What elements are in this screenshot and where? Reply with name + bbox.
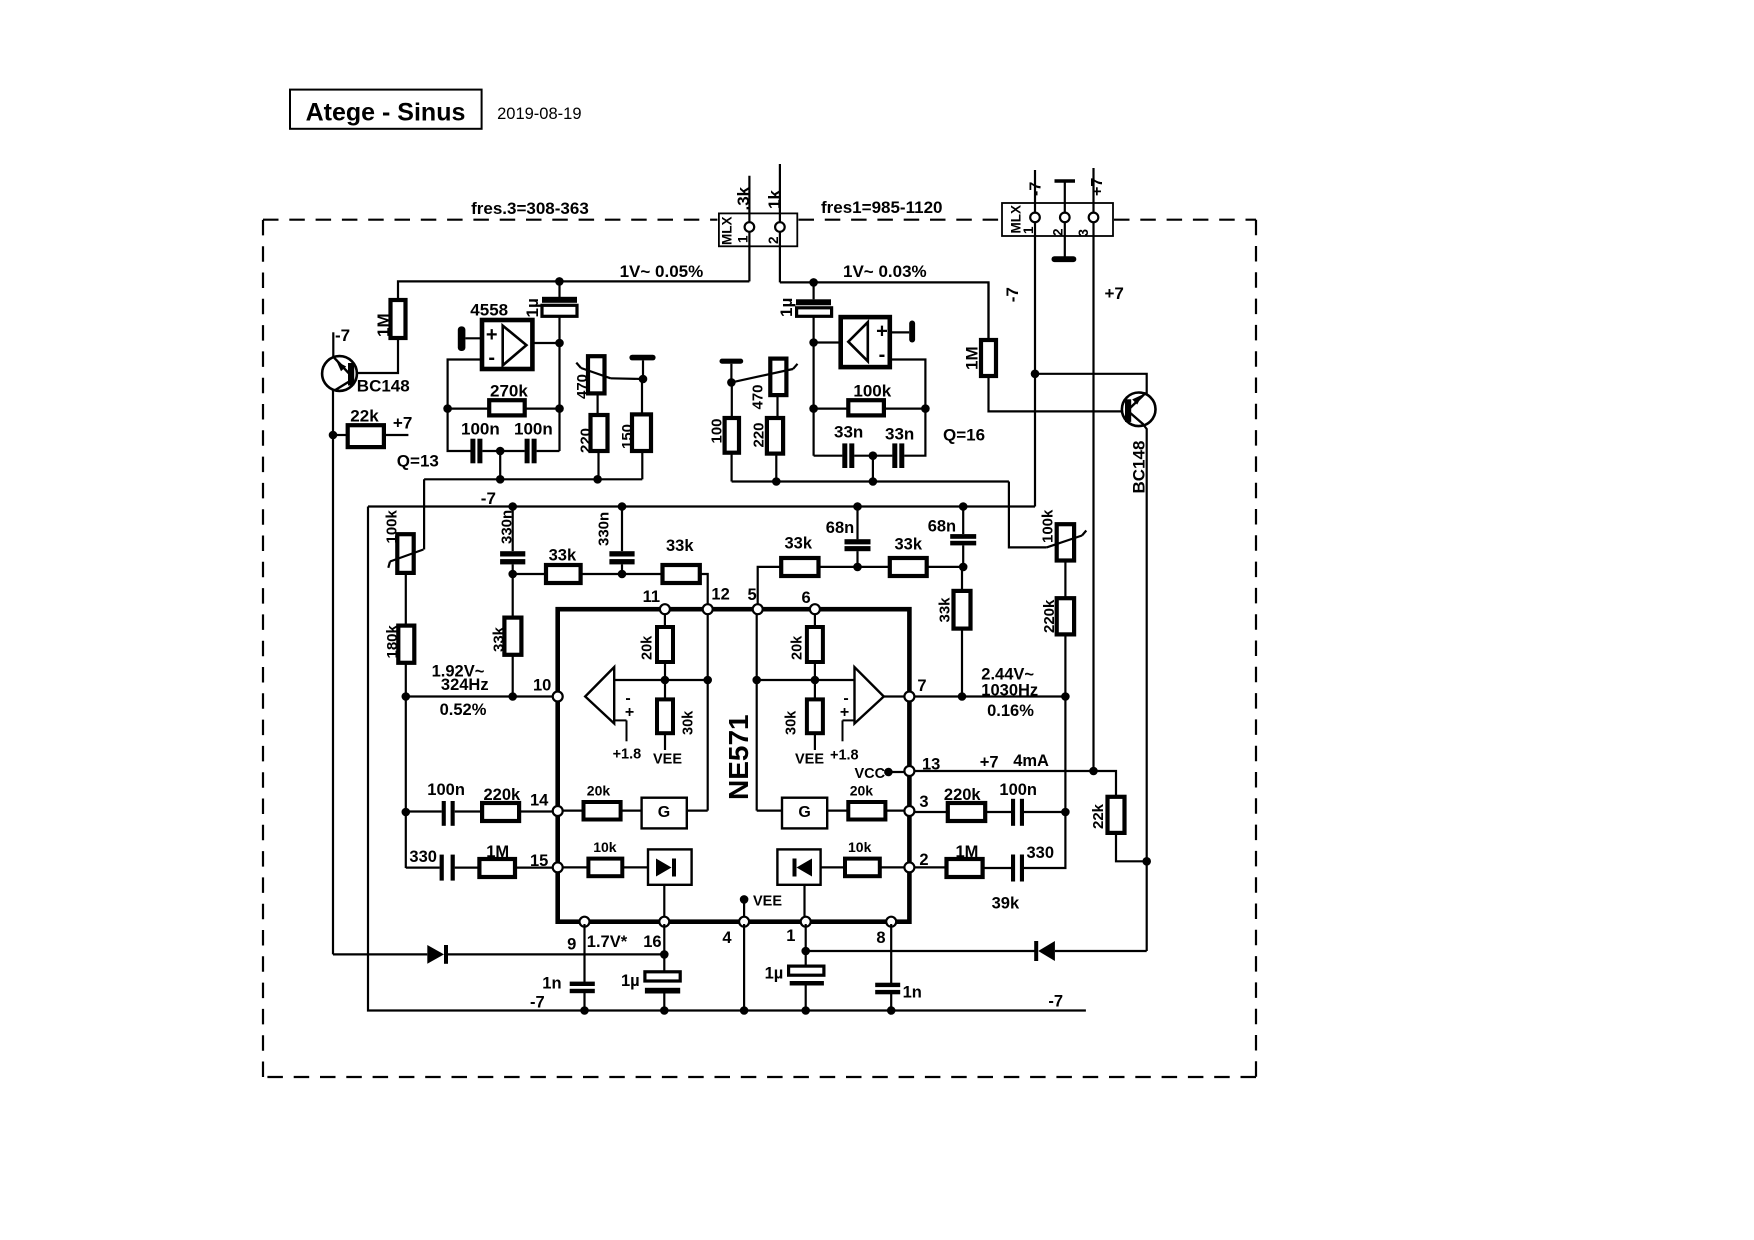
resistor 33k A [546,565,581,583]
wire 220 right bottom [775,454,777,482]
svg-text:220: 220 [751,422,768,447]
node +7 rail end [1089,767,1098,776]
wire diode D2 to collector rail [1055,950,1147,952]
svg-text:VCC: VCC [855,766,886,782]
wire 1V 0.03% net [780,282,989,340]
svg-text:33k: 33k [895,536,923,554]
svg-text:-: - [488,347,495,369]
node 330n B bottom [618,570,627,579]
node 33k pin7 junction [958,692,967,701]
op-amp internal left triangle [585,667,614,723]
wire 470 to 220 right [776,395,778,418]
capacitor 68n A [856,507,858,540]
svg-text:Atege - Sinus: Atege - Sinus [306,99,466,127]
svg-text:16: 16 [643,933,661,951]
capacitor 33n A [842,443,847,468]
ground plate at U1B +input [909,321,915,343]
wire right bus to wiper [1009,482,1047,548]
resistor internal left 10k [588,859,622,877]
svg-text:22k: 22k [1090,803,1107,829]
svg-text:33n: 33n [834,423,863,442]
IC NE571 box [558,609,910,922]
wire 1V 0.05% net [398,281,749,300]
wire internal pin12 vertical [707,611,709,811]
wire 33k A to B [581,573,663,575]
wire 100 bottom [730,453,732,482]
svg-text:30k: 30k [681,710,697,735]
capacitor 100n A [470,439,475,464]
svg-text:Q=16: Q=16 [943,426,985,445]
svg-text:+: + [876,321,888,343]
node 100n pin14 junction [402,808,411,817]
svg-text:VEE: VEE [795,752,824,768]
resistor 1M left [391,300,406,338]
svg-text:100k: 100k [853,382,891,401]
svg-text:470: 470 [750,384,767,409]
wire 33n junction down [872,456,874,482]
wire 33k vertical right leads [961,567,963,591]
node 330n A bottom [508,570,517,579]
wire pin8 down [890,924,892,983]
svg-text:VEE: VEE [653,752,682,768]
wire U1A output [532,342,559,344]
wire 270k left lead [448,408,490,410]
node U1A feedback left [443,404,452,413]
svg-text:270k: 270k [490,382,528,401]
wire pin13 row [915,771,1117,797]
svg-text:68n: 68n [826,519,854,537]
svg-text:1n: 1n [903,984,922,1002]
trimmer 470 right [770,359,786,396]
node 100n bus junction [496,475,505,484]
op-amp U1A box [482,320,532,369]
wire pin4 down [743,924,745,1011]
pin 8 [886,917,896,927]
node between 33n caps [869,451,878,460]
svg-text:330n: 330n [596,512,613,546]
svg-text:330: 330 [409,848,437,866]
svg-text:33k: 33k [491,626,508,652]
svg-text:.3k: .3k [734,186,753,210]
svg-text:NE571: NE571 [723,714,754,800]
node -7/emitter junction [1031,370,1040,379]
wire between 33n caps [854,455,892,457]
capacitor 100n pin3 [1011,799,1015,826]
svg-text:G: G [658,804,670,821]
node 100n pin3 junction [1061,808,1070,817]
svg-text:2019-08-19: 2019-08-19 [497,105,581,123]
wire -7 bus [368,505,1035,507]
svg-text:1k: 1k [765,190,784,209]
resistor 220 left [591,415,608,451]
ground bar above 470 left [629,355,655,361]
svg-text:33k: 33k [666,537,694,555]
diode D1 [427,945,444,964]
svg-text:5: 5 [748,586,757,604]
ground bar above 100 [720,359,744,364]
wire pin1 junction to diode right [806,950,1037,952]
node 68n B bottom [959,563,968,572]
wire 1M to base [354,338,398,373]
svg-text:-7: -7 [530,994,545,1012]
node U1B feedback right [921,404,930,413]
pin 16 [659,917,669,927]
svg-text:+1.8: +1.8 [830,748,859,764]
capacitor 100n pin14 [442,801,446,826]
svg-text:+1.8: +1.8 [613,747,642,763]
svg-text:2: 2 [919,851,928,869]
node 220 right bus junction [772,477,781,486]
node pin16 wire junction [660,950,669,959]
capacitor 68n B [962,507,964,535]
IC NE571 internals right 20k [814,611,816,627]
svg-text:1M: 1M [486,843,509,861]
node VCC terminal [884,768,893,777]
wire U1A output vertical [558,316,560,451]
resistor 33k vertical right [954,591,971,629]
wire diode to 10k right [821,866,845,868]
node 330n A junction [508,502,517,511]
svg-text:1µ: 1µ [765,965,784,983]
svg-text:22k: 22k [350,407,379,426]
svg-text:-7: -7 [335,326,350,345]
wire MLX pin1 vertical [748,176,750,282]
wire left filter bus [424,478,642,480]
resistor 22k [348,425,384,447]
wire trimmer to 220k [1064,561,1066,599]
wire 330 to 1M [455,866,480,868]
capacitor 100n B [525,439,530,464]
node 68n A bottom [853,563,862,572]
svg-text:+7: +7 [393,414,412,433]
ground plate at U1A +input [458,326,466,351]
node pin4 -7 [740,1006,749,1015]
wire 150 bottom [641,451,643,479]
svg-text:+7: +7 [1089,178,1106,196]
wire pin5 to 33k C [758,567,782,604]
wire MLX2 pin2 to ground [1064,222,1066,257]
svg-text:220k: 220k [1041,599,1058,633]
resistor internal left 20k h [584,802,621,820]
wire 220k to 100n [985,811,1011,813]
wire 150 top [641,379,643,414]
node 33k pin10 junction [508,692,517,701]
svg-text:1: 1 [736,235,751,243]
wire U1B cap row [814,455,843,457]
wire 100n to junction [1024,811,1066,813]
svg-text:11: 11 [643,588,660,606]
resistor internal right 10k [845,859,880,877]
pin 13 [904,766,914,776]
svg-text:10: 10 [533,677,551,695]
svg-text:1: 1 [786,927,795,945]
svg-text:100n: 100n [514,420,553,439]
svg-text:+: + [625,704,634,721]
wire 33k D leads [858,566,890,568]
svg-text:VEE: VEE [753,894,782,910]
wire left bus to wiper [423,479,425,549]
wire 1M to pin15 [515,866,553,868]
wire 1n right to -7 [890,994,892,1011]
title box [290,90,482,129]
svg-text:3: 3 [919,793,928,811]
capacitor 1u left [558,281,560,297]
wire 1M right to base [989,376,1126,411]
wire MLX2 pin1 stub [1034,170,1036,213]
svg-text:-7: -7 [1028,182,1045,196]
wire MLX2 pin2 stub with T bar [1064,182,1066,213]
pin 6 [810,604,820,614]
wire pin9 down [583,924,585,982]
op-amp internal right triangle [855,667,884,723]
svg-text:fres.3=308-363: fres.3=308-363 [471,199,589,218]
wire 330 to junction corner [1024,812,1066,868]
resistor 220 right [767,418,783,454]
capacitor 330n B [621,507,623,552]
resistor 180k [398,626,414,663]
pin 4 [739,917,749,927]
wire right filter bus [732,480,1009,482]
svg-text:100k: 100k [384,509,401,543]
node 33n bus junction [869,477,878,486]
wire 10k to diode left [622,866,648,868]
capacitor 1n right [875,983,900,987]
connector MLX2 pin 3 [1089,213,1099,223]
wire 470 to 220 [596,393,598,415]
node 68n B junction [959,502,968,511]
svg-text:6: 6 [802,589,811,607]
svg-text:2: 2 [1051,228,1066,236]
wire U1A +input [465,337,482,339]
capacitor 330n A [512,507,514,552]
gain cell G left [642,798,687,829]
pin 3 [904,806,914,816]
node pin1 -7 [801,1006,810,1015]
gain cell G right [782,798,827,829]
resistor 220k left [482,803,519,821]
svg-text:1.7V*: 1.7V* [587,933,628,951]
wire internal right row [757,679,855,681]
wire 33k row left [513,573,546,575]
node between 100n caps [496,447,505,456]
resistor 1M right [981,340,996,376]
capacitor 33n B [892,443,897,468]
wire 33k vertical leads [512,574,514,618]
wire 100n junction down [499,451,501,479]
resistor 100 [725,418,739,453]
svg-text:39k: 39k [992,895,1020,913]
svg-text:-7: -7 [1003,287,1022,302]
wire emitter right [1035,374,1147,394]
trimmer 100k left [397,534,413,573]
node internal right 20k/30k [811,676,820,685]
capacitor 1u right [812,282,814,299]
svg-text:10k: 10k [848,839,872,855]
svg-text:1V~ 0.05%: 1V~ 0.05% [620,262,704,281]
connector MLX2 pin 1 [1030,213,1040,223]
svg-text:4: 4 [722,929,732,947]
node pin10 row left [402,692,411,701]
wire 1M to 330 [983,867,1011,869]
node U1A feedback right [555,404,564,413]
svg-text:470: 470 [574,374,591,399]
wire U1B output [890,360,926,456]
wire 20k to G left [621,809,642,811]
resistor 33k vertical left [504,618,521,655]
resistor 270k [489,400,525,415]
resistor 150 [632,414,651,451]
svg-text:33k: 33k [785,535,813,553]
svg-text:100: 100 [709,418,726,443]
svg-text:1M: 1M [956,843,979,861]
IC NE571 internals left 20k [664,611,666,627]
wire U1B +input [890,331,909,333]
node 68n A junction [853,502,862,511]
wire 22k right bottom [1116,833,1147,861]
wire between 100n caps [482,450,524,452]
pin 15 [553,862,563,872]
node U1B feedback left [809,404,818,413]
svg-text:100n: 100n [999,781,1037,799]
svg-text:9: 9 [567,936,576,954]
node 22k right junction [1142,857,1151,866]
pin 14 [553,806,563,816]
resistor 220k right [948,803,985,821]
wire diode D1 to pin16 [448,953,664,955]
wire -7 left rail down [368,507,1086,1011]
pin 2 [904,862,914,872]
resistor 33k D [890,558,927,576]
svg-text:3: 3 [1076,229,1091,237]
wire trimmer to 180k [405,573,407,626]
wire 270k right lead [525,408,560,410]
wire collector rail right [1144,426,1147,952]
svg-text:100n: 100n [461,420,500,439]
svg-text:20k: 20k [790,635,806,660]
node internal pin5 [752,676,761,685]
svg-text:0.16%: 0.16% [987,702,1034,720]
svg-text:+7: +7 [980,754,999,772]
wire emitter stub -7 [332,332,334,357]
svg-text:10k: 10k [593,839,617,855]
capacitor 1n left [570,982,595,986]
wire collector rail left [332,390,334,954]
pin 1 [801,917,811,927]
wire 22k right lead +7 stub [384,434,409,436]
wire 100k left lead [814,408,849,410]
node U1A output junction [555,339,564,348]
wire pin7 row [915,695,1066,697]
capacitor 330 pin15 [440,855,444,881]
resistor internal right 20k h [848,802,885,820]
node 470 wiper junction [639,375,648,384]
svg-text:150: 150 [619,424,636,449]
wire 33k C to 68n A [819,566,858,568]
svg-text:1µ: 1µ [621,972,640,990]
wire 180k bottom rail [405,663,407,868]
svg-text:1V~ 0.03%: 1V~ 0.03% [843,262,927,281]
node U1B input junction [809,338,818,347]
diode D2 [1034,941,1038,961]
svg-text:30k: 30k [784,710,800,735]
wire pin3 row [915,811,948,813]
wire internal left row [614,679,708,681]
wire U1B input vertical [812,316,814,455]
svg-text:33n: 33n [885,425,914,444]
svg-text:1n: 1n [542,975,561,993]
svg-text:+: + [486,324,498,346]
transistor Q1 BC148 [322,356,357,391]
wire MLX pin2 vertical [779,164,781,282]
pin 10 [553,692,563,702]
ground bar below MLX2 pin2 [1052,256,1077,262]
svg-text:Q=13: Q=13 [397,452,439,471]
node 22k junction [329,431,338,440]
wire 20k to pin3 [885,809,904,811]
node pin9 -7 [580,1006,589,1015]
svg-text:324Hz: 324Hz [441,676,489,694]
wire diode cell to pin16 [663,885,665,919]
svg-text:220: 220 [578,428,595,453]
wire left rail corner to diode [333,953,427,955]
node pin16 -7 [660,1006,669,1015]
wire pin14 row left [406,810,442,812]
wire pin7 row right down [1064,697,1066,813]
node junction above C-1u left [555,277,564,286]
svg-text:-: - [879,344,886,366]
svg-text:BC148: BC148 [357,377,410,396]
wire 1u pin16 to -7 [663,994,665,1011]
node pin8 -7 [887,1006,896,1015]
node 100/wiper junction [727,378,736,387]
wire diode cell to pin1 [803,885,805,919]
connector MLX2 pin 2 [1060,213,1070,223]
svg-text:20k: 20k [640,635,656,660]
connector MLX pin 2 [775,222,785,232]
wire 1u pin1 to -7 [805,986,807,1011]
wire VCC to pin13 [888,771,907,773]
capacitor 330 pin2 [1011,855,1015,882]
resistor internal right 30k [807,699,823,733]
node 220 bus junction [593,475,602,484]
node pin7 row right [1061,692,1070,701]
svg-text:1: 1 [1021,226,1036,234]
wire U1B input lead [814,341,841,343]
capacitor 1u pin16 [645,972,680,981]
wire +7 rail vertical [1092,222,1094,771]
wire pin10 row [406,695,553,697]
dashed frame border [263,219,717,221]
svg-text:68n: 68n [928,518,956,536]
svg-text:1M: 1M [374,313,393,337]
diode cell right [777,849,820,884]
wire VEE to pin4 [743,899,745,919]
svg-text:-7: -7 [1048,993,1063,1011]
svg-text:-7: -7 [481,489,496,508]
svg-text:330n: 330n [499,510,516,544]
wire MLX2 pin3 stub [1092,168,1094,213]
pin 12 [703,604,713,614]
wire internal pin5 vertical [756,611,758,811]
pin 5 [753,604,763,614]
resistor internal left 30k [657,699,673,733]
wire 1M right top [987,282,989,340]
wire pin14 internal [561,809,584,811]
wire G left to pin12 line [687,809,708,811]
svg-text:20k: 20k [850,783,874,799]
pin 9 [580,917,590,927]
op-amp U1B box [841,317,890,367]
